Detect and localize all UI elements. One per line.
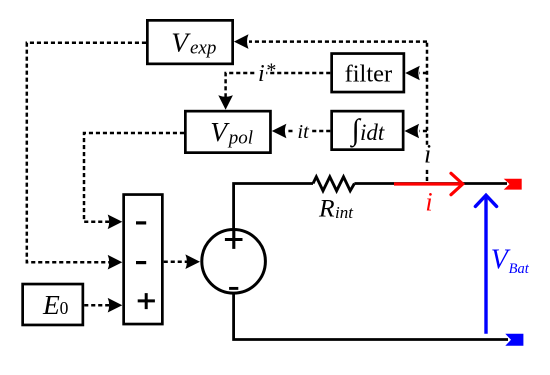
red current arrow on main wire: [394, 182, 461, 185]
dashed wire: current sense tap above main wire: [426, 167, 429, 181]
svg-text:E: E: [42, 289, 60, 320]
block V_exp: [147, 20, 232, 64]
svg-text:i: i: [424, 140, 431, 169]
dashed stub: current line into integrator: [420, 130, 428, 133]
arrowhead into source: [185, 254, 200, 269]
wire: source bottom lead to negative terminal: [234, 294, 508, 340]
svg-text:*: *: [266, 60, 276, 82]
red arrowhead chevron: [451, 173, 463, 194]
arrowhead into V_pol right: [272, 124, 287, 139]
block filter: [332, 54, 404, 93]
dashed stub: current line into filter: [420, 72, 428, 75]
svg-text:i: i: [258, 61, 265, 87]
dashed wire: current line top run to V_exp input: [249, 40, 427, 43]
dashed wire: filter output to V_pol top input: [266, 72, 330, 75]
plus sign inside source: [225, 231, 243, 249]
svg-text:0: 0: [60, 298, 69, 318]
dashed wire: E0 output to summing plus input: [84, 304, 110, 307]
dashed wire: integrator output to V_pol right input: [311, 130, 331, 133]
svg-text:Bat: Bat: [509, 261, 530, 277]
negative terminal port (blue): [505, 334, 523, 346]
block V_pol: [185, 111, 270, 152]
wire: resistor to positive terminal: [354, 182, 507, 185]
svg-text:filter: filter: [345, 60, 393, 87]
wire: source top lead up to main positive rail: [234, 184, 313, 229]
dashed wire: V_pol output to summing top input: [84, 133, 184, 222]
svg-text:idt: idt: [360, 120, 385, 145]
svg-text:it: it: [297, 121, 310, 143]
svg-text:i: i: [425, 187, 432, 216]
sum sign minus (middle): [136, 261, 146, 264]
arrowhead into V_pol top: [218, 95, 233, 110]
arrowhead into filter right: [405, 66, 420, 81]
positive terminal port (red): [504, 179, 522, 190]
blue V_Bat arrow: [484, 198, 487, 334]
minus sign inside source: [229, 287, 238, 290]
controlled voltage source circle: [202, 229, 266, 293]
dashed wire: V_exp output to summing middle input: [27, 43, 146, 262]
sum sign plus (bottom): [138, 293, 155, 309]
resistor R_int: [313, 177, 354, 191]
arrowhead into integrator right: [405, 124, 420, 139]
svg-text:pol: pol: [227, 128, 253, 149]
block integrator ∫idt: [332, 111, 404, 149]
arrowhead into summing top input: [108, 215, 123, 230]
svg-text:exp: exp: [190, 38, 216, 59]
svg-text:int: int: [335, 203, 354, 222]
sum sign minus (top): [136, 221, 146, 224]
arrowhead into summing middle input: [108, 255, 123, 270]
dashed wire: summing output to source: [164, 260, 187, 263]
block E0: [23, 284, 83, 325]
arrowhead into V_exp right: [234, 34, 249, 49]
summing block: [124, 195, 163, 324]
dashed wire: current sense line vertical run: [426, 42, 429, 145]
blue arrowhead chevron: [475, 195, 496, 206]
svg-text:R: R: [318, 194, 335, 223]
arrowhead into summing plus input: [108, 298, 123, 313]
